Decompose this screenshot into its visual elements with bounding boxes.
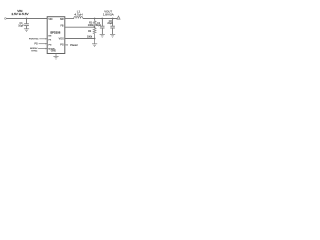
svg-text:GND: GND [51,50,57,53]
svg-text:100k: 100k [87,36,93,39]
svg-text:1.8V/3A: 1.8V/3A [103,12,115,16]
svg-text:22µF: 22µF [96,25,102,27]
svg-text:PG: PG [34,43,38,46]
node VIN junction [26,18,28,20]
svg-text:4.7µH: 4.7µH [74,12,82,16]
node VOUT arrow terminal [117,16,120,19]
IC U1 part number label [50,31,60,35]
svg-text:PGood: PGood [70,45,78,47]
svg-text:SYNC: SYNC [31,51,37,53]
node AGND junction [94,38,96,40]
wire VIN input to IC [6,18,47,20]
resistor R1 [93,19,96,28]
node junction C2 [101,18,103,20]
svg-text:PG: PG [48,44,51,46]
node FB junction [94,26,96,28]
wire VOUT rail [83,18,119,20]
ground under C3 [110,35,115,38]
svg-text:FB: FB [60,24,63,27]
svg-text:2.5V to 5.5V: 2.5V to 5.5V [11,12,29,16]
svg-text:PG: PG [60,43,64,46]
wire AGND sense [65,38,95,40]
svg-text:VOS: VOS [59,37,64,40]
IC U1 regulator box [47,17,65,54]
node junction R1 [94,18,96,20]
svg-text:10µF: 10µF [18,24,24,27]
svg-text:PS/SYNC: PS/SYNC [29,39,39,41]
wire SW to inductor [65,18,74,20]
svg-text:100k: 100k [88,24,94,27]
svg-text:VIN: VIN [48,18,52,21]
capacitor C2 [100,19,105,35]
ground under IC [53,54,58,60]
pin stub PGood [65,44,68,46]
svg-text:EN: EN [48,36,51,38]
capacitor C3 [110,19,115,35]
inductor L1 [74,17,83,19]
node VIN terminal [5,18,7,20]
svg-text:22µF: 22µF [107,23,113,25]
ground under R2 [92,44,97,47]
capacitor C1 [24,19,29,29]
resistor R2 [93,27,96,43]
pin stub MODE/SYNC [38,48,47,50]
ground under C2 [100,35,105,38]
pin stub PS/SYNC [39,38,47,40]
ground under C1 [24,29,29,32]
wire FB [65,26,95,28]
svg-text:BP5308: BP5308 [50,31,60,35]
pin stub PG [39,43,47,45]
node junction C3 [112,18,114,20]
